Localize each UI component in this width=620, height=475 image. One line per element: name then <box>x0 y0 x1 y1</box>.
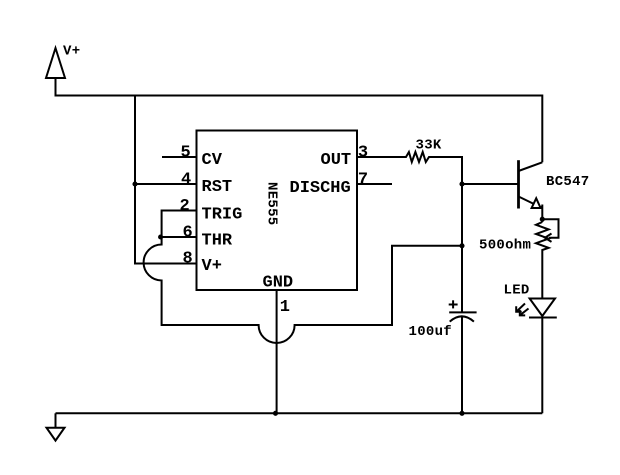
svg-text:500ohm: 500ohm <box>479 238 531 254</box>
svg-text:1: 1 <box>280 298 290 317</box>
svg-text:NE555: NE555 <box>264 182 280 226</box>
svg-text:3: 3 <box>358 143 368 162</box>
svg-text:RST: RST <box>202 178 233 197</box>
svg-text:TRIG: TRIG <box>202 206 243 225</box>
svg-text:V+: V+ <box>202 257 222 276</box>
svg-text:LED: LED <box>504 283 530 299</box>
svg-text:DISCHG: DISCHG <box>290 179 351 198</box>
svg-text:5: 5 <box>181 143 191 162</box>
svg-text:GND: GND <box>263 274 294 293</box>
svg-text:4: 4 <box>181 170 191 189</box>
svg-text:2: 2 <box>180 197 190 216</box>
svg-text:THR: THR <box>202 232 233 251</box>
svg-text:6: 6 <box>183 223 193 242</box>
svg-text:CV: CV <box>202 151 223 170</box>
svg-text:OUT: OUT <box>321 151 352 170</box>
svg-text:V+: V+ <box>63 44 80 60</box>
svg-text:BC547: BC547 <box>546 174 590 190</box>
svg-text:100uf: 100uf <box>409 324 453 340</box>
svg-text:33K: 33K <box>416 138 442 154</box>
svg-text:7: 7 <box>358 170 368 189</box>
svg-text:8: 8 <box>183 250 193 269</box>
